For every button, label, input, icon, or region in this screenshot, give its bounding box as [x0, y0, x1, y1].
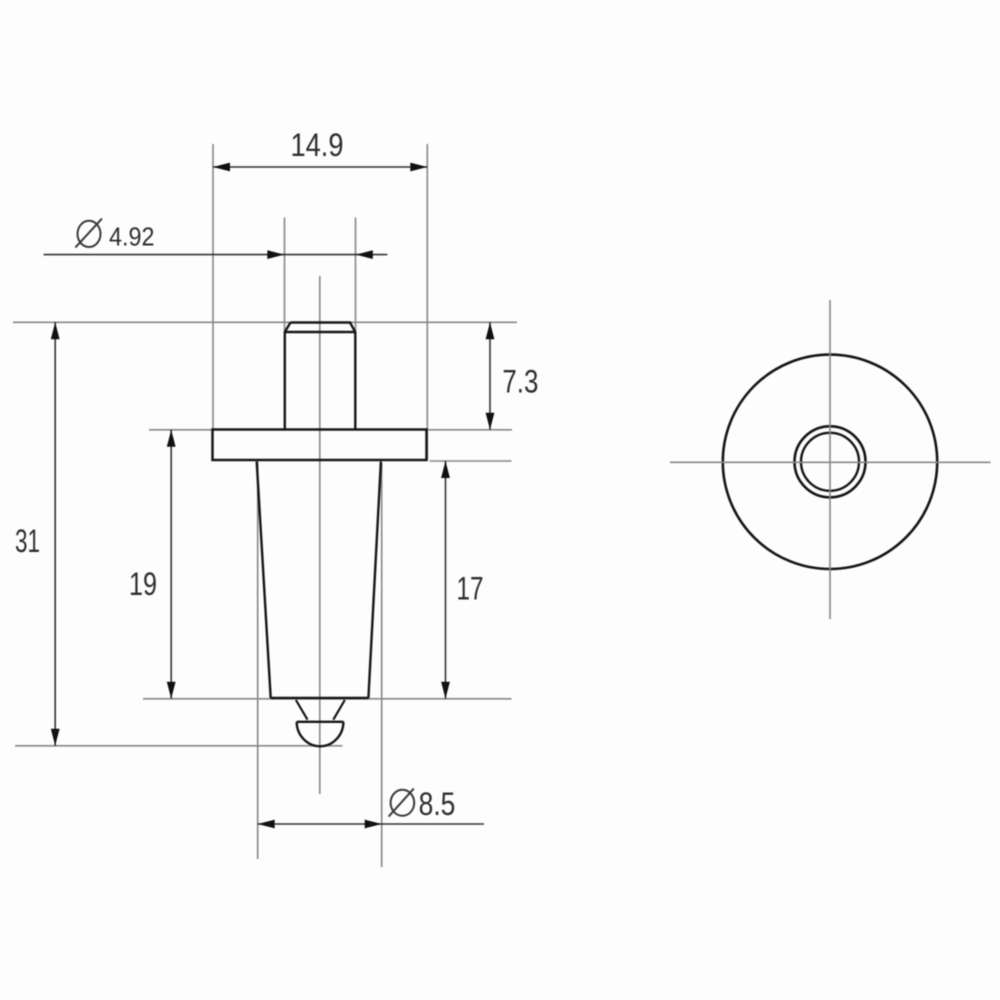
reference line flange-top left extension (19 upper datum)	[149, 429, 213, 431]
reference line bottom (31 lower datum)	[15, 745, 343, 747]
svg-text:31: 31	[15, 523, 40, 559]
flange outline front view	[213, 430, 427, 461]
svg-text:7.3: 7.3	[502, 364, 538, 400]
dimension line 17	[445, 461, 447, 699]
svg-text:8.5: 8.5	[419, 786, 456, 822]
dimension line 8.5	[258, 823, 484, 825]
centerline front view	[319, 276, 321, 794]
dimension line 19	[170, 430, 172, 699]
diameter symbol of 4.92	[78, 221, 101, 247]
extension line 14.9 right	[426, 144, 428, 460]
reference line taper-top right extension (17 upper datum)	[430, 460, 512, 462]
tip dome outline	[297, 722, 344, 746]
right view vertical centerline	[829, 300, 831, 619]
stud (pin) outline front view	[285, 323, 356, 430]
extension line 4.92 left	[284, 218, 286, 332]
right view big circle (flange)	[723, 355, 937, 569]
right view hole inner circle	[801, 433, 859, 491]
svg-text:19: 19	[129, 566, 157, 602]
svg-text:17: 17	[457, 571, 484, 607]
svg-text:14.9: 14.9	[291, 127, 344, 163]
dimension line 7.3	[489, 322, 491, 430]
svg-text:4.92: 4.92	[109, 222, 155, 252]
right view horizontal centerline	[670, 461, 991, 463]
reference line flange-top right extension (7.3 lower datum)	[428, 429, 512, 431]
extension line 4.92 right	[355, 218, 357, 332]
dimension line 4.92	[44, 254, 388, 256]
tip neck outline	[296, 700, 345, 720]
extension line 14.9 left	[212, 144, 214, 430]
dimension line 14.9	[213, 166, 427, 168]
taper body outline front view	[257, 462, 381, 699]
reference line bottom of taper (19 / 17 lower datum)	[143, 698, 512, 700]
dimension line 31	[54, 322, 56, 746]
diameter symbol of 8.5	[391, 790, 415, 816]
right view hole outer circle	[795, 426, 866, 497]
extension line 8.5 right	[381, 463, 383, 867]
extension line 8.5 left	[257, 462, 259, 859]
reference line top (31 / 7.3 upper datum)	[13, 321, 517, 323]
